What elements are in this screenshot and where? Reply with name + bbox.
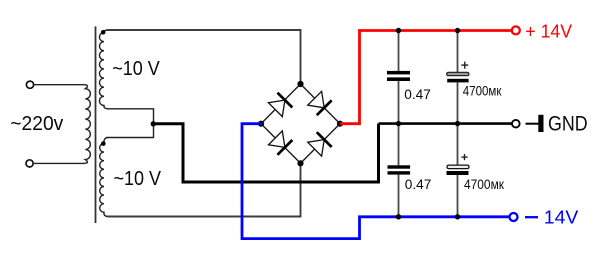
phase dot winding 1 [101, 30, 106, 35]
wire [33, 162, 84, 164]
svg-text:~220v: ~220v [10, 112, 64, 135]
diode D4 (bottom node to right node) [307, 132, 331, 156]
wire secondary1 bottom to center tap [107, 109, 154, 124]
svg-text:4700мк: 4700мк [463, 84, 502, 99]
capacitor C2 negative plate [447, 79, 468, 83]
terminal +14V [512, 26, 520, 34]
capacitor C1 plates (0.47 upper) [387, 71, 410, 75]
node blue rail / C4 [455, 214, 460, 219]
wire bridge edge top-left [261, 84, 301, 124]
capacitor C4 positive plate (4700мк lower) [447, 165, 469, 169]
svg-text:+ 14V: + 14V [525, 20, 572, 41]
node red rail / C2 [455, 28, 460, 33]
svg-text:0.47: 0.47 [404, 87, 431, 102]
capacitor C4 polarity plus [461, 154, 467, 160]
terminal P2 (mains bottom) [26, 160, 33, 167]
transformer T1 secondary winding 2 (~10 V lower) [100, 138, 108, 217]
wire [34, 84, 84, 86]
capacitor C4 lead upper [457, 124, 459, 166]
wire +14V net (red) [340, 31, 512, 124]
diode D3 (left node to bottom node) [268, 130, 292, 154]
terminal P1 (mains top) [26, 81, 33, 88]
wire secondary2 bottom to bridge bottom [107, 164, 301, 217]
capacitor C1 lead upper [398, 31, 400, 72]
diode D1 (left node to top node) [268, 93, 292, 117]
node bridge left [258, 121, 264, 127]
capacitor C3 plates (0.47 lower) [388, 165, 411, 168]
wire gnd symbol [526, 123, 539, 125]
wire center tap to ground bus (thick) [153, 124, 378, 182]
svg-text:4700мк: 4700мк [464, 177, 505, 192]
capacitor C3 lead upper [398, 124, 400, 166]
capacitor C3 lead lower [398, 175, 400, 217]
node bridge bottom [297, 160, 303, 166]
wire ground bus [379, 122, 513, 125]
transformer core [95, 26, 97, 223]
node bridge right [337, 121, 343, 127]
wire bridge edge top-right [301, 84, 341, 124]
wire secondary1 top to bridge [107, 30, 301, 83]
wire secondary2 top to center tap [107, 124, 154, 138]
node red rail / C1 [396, 28, 401, 33]
wire bridge edge bottom-right [301, 124, 341, 164]
capacitor C2 polarity plus [461, 62, 468, 69]
capacitor C2 lead upper [457, 31, 459, 73]
node bridge top [297, 81, 303, 87]
terminal -14V [510, 213, 518, 221]
capacitor C2 positive plate (4700мк upper) [447, 72, 469, 75]
capacitor C4 lead lower [457, 175, 459, 217]
wire -14V net (blue) [242, 124, 510, 239]
capacitor C2 lead lower [457, 82, 459, 123]
node center tap junction [151, 121, 156, 126]
svg-text:~10 V: ~10 V [112, 58, 160, 80]
svg-text:0.47: 0.47 [405, 177, 432, 192]
minus sign [525, 216, 538, 218]
capacitor C1 lead lower [398, 81, 400, 124]
capacitor C4 negative plate [447, 171, 469, 175]
transformer T1 primary winding [84, 85, 90, 164]
transformer T1 secondary winding 1 (~10 V upper) [99, 30, 108, 109]
node gnd bus / C1 [396, 121, 401, 126]
node blue rail / C3 [396, 214, 401, 219]
svg-text:GND: GND [548, 112, 588, 135]
wire bridge edge bottom-left [261, 124, 301, 164]
svg-text:~10 V: ~10 V [114, 168, 162, 190]
terminal GND [512, 120, 520, 128]
phase dot winding 2 [101, 141, 106, 146]
diode D2 (top node to right node) [307, 91, 331, 115]
node gnd bus / C2 [455, 121, 460, 126]
gnd bar symbol [538, 115, 543, 132]
svg-text:14V: 14V [544, 207, 579, 228]
